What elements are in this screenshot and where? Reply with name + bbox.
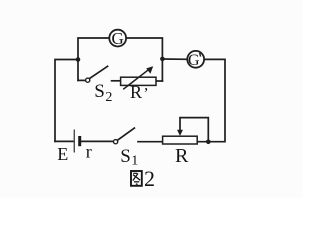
meter G' — [187, 51, 204, 69]
switch S1 pivot circle — [114, 140, 118, 144]
resistor R wiper arrowhead — [177, 130, 183, 136]
svg-text:S: S — [94, 81, 105, 102]
resistor R' body — [121, 77, 156, 85]
wire G' to right corner and down — [197, 59, 225, 141]
svg-text:E: E — [57, 144, 68, 164]
wire top rectangle (left vertical, top run, right vertical) — [78, 38, 162, 81]
wire battery to S1 — [81, 140, 113, 142]
node junction at R — [206, 140, 211, 145]
svg-text:2: 2 — [144, 166, 155, 191]
wire R wiper link — [180, 118, 208, 142]
svg-text:’: ’ — [143, 85, 148, 102]
wire left outer branch — [55, 60, 78, 142]
svg-text:R: R — [175, 145, 189, 167]
caption 图2 — [131, 171, 142, 186]
svg-text:G: G — [188, 52, 200, 69]
node junction right — [160, 57, 165, 62]
wire S1 to R — [138, 141, 163, 143]
svg-text:S: S — [120, 146, 131, 167]
galvanometer G — [109, 29, 126, 48]
svg-text:1: 1 — [131, 154, 138, 169]
wire S2 branch lead — [78, 79, 85, 81]
wire right junction to G' — [162, 58, 187, 60]
wire left corner to battery — [55, 140, 74, 142]
battery E short plate — [78, 136, 81, 146]
svg-text:r: r — [86, 142, 92, 162]
battery E long plate — [73, 130, 75, 153]
switch S1 arm — [118, 128, 135, 140]
svg-text:R: R — [130, 82, 142, 102]
svg-text:2: 2 — [105, 90, 112, 105]
node junction left — [76, 57, 81, 62]
wire R' to right junction — [156, 80, 162, 82]
svg-text:G: G — [112, 29, 124, 48]
switch S2 pivot circle — [86, 78, 90, 82]
switch S2 arm — [90, 66, 108, 78]
resistor R body — [163, 136, 198, 144]
wire S2 to R' — [112, 80, 121, 82]
resistor R' arrow — [123, 66, 153, 89]
